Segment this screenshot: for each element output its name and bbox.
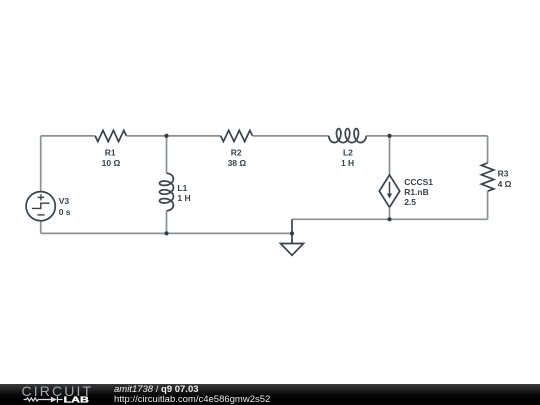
label R3	[498, 169, 512, 189]
wire CCCS1 top lead	[389, 136, 391, 175]
footer url line	[114, 394, 270, 405]
wire L1 bottom lead	[166, 211, 168, 234]
resistor R2	[221, 130, 253, 141]
junction ground	[290, 231, 294, 235]
svg-text:V3: V3	[59, 196, 70, 206]
wire R3 bottom lead	[487, 191, 489, 219]
svg-text:LAB: LAB	[64, 395, 90, 404]
svg-text:4 Ω: 4 Ω	[498, 179, 512, 189]
label L1	[177, 183, 190, 203]
svg-text:38 Ω: 38 Ω	[228, 158, 247, 168]
resistor R1	[95, 130, 126, 141]
svg-text:L1: L1	[177, 183, 187, 193]
dependent source CCCS1	[379, 175, 399, 207]
wire R2 to L2	[253, 135, 329, 137]
resistor R3	[481, 163, 493, 191]
wire V3 bottom lead	[40, 221, 42, 234]
svg-text:2.5: 2.5	[404, 197, 416, 207]
svg-text:R1.nB: R1.nB	[404, 187, 429, 197]
label V3	[59, 196, 71, 217]
wire bottom-right horizontal	[292, 218, 488, 220]
wire L2 to top-right corner	[366, 135, 487, 137]
CircuitLab logo	[0, 384, 120, 405]
wire bottom-left horizontal	[41, 232, 292, 234]
svg-text:0 s: 0 s	[59, 207, 71, 217]
wire CCCS1 bottom lead	[389, 207, 391, 219]
wire top from V3 to R1	[41, 135, 95, 137]
junction L1 bottom	[164, 231, 168, 235]
svg-text:1 H: 1 H	[341, 158, 354, 168]
svg-text:1 H: 1 H	[177, 193, 190, 203]
svg-text:10 Ω: 10 Ω	[102, 158, 121, 168]
footer credit line	[114, 384, 199, 395]
svg-text:CCCS1: CCCS1	[404, 177, 433, 187]
ground	[281, 219, 304, 255]
svg-text:L2: L2	[343, 148, 353, 158]
label CCCS1	[404, 177, 433, 207]
wire R3 top lead	[487, 136, 489, 163]
junction L2 right	[387, 134, 391, 138]
voltage source V3	[26, 192, 55, 221]
junction CCCS1 bottom	[387, 217, 391, 221]
inductor L1	[160, 173, 174, 211]
svg-text:R3: R3	[498, 169, 509, 179]
inductor L2	[329, 129, 367, 143]
label R1	[102, 147, 121, 168]
wire R1 to R2	[126, 135, 220, 137]
svg-text:R1: R1	[105, 147, 116, 157]
junction L1 top	[164, 134, 168, 138]
label R2	[228, 147, 247, 168]
label L2	[341, 148, 354, 169]
wire top-left vertical	[40, 136, 42, 192]
footer bar	[0, 384, 540, 405]
svg-text:R2: R2	[231, 147, 242, 157]
wire L1 top lead	[166, 136, 168, 173]
